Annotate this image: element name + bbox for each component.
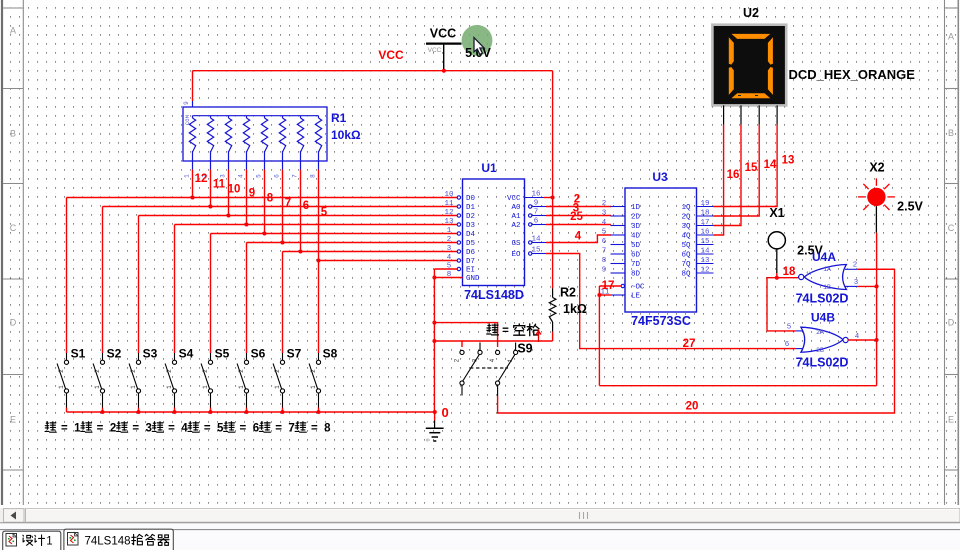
svg-text:2: 2	[58, 369, 65, 373]
svg-text:18: 18	[783, 266, 796, 278]
U2 pins leads	[724, 105, 778, 124]
U1 name 74LS148D	[464, 288, 524, 302]
label key = space	[487, 324, 539, 337]
svg-text:=: =	[311, 422, 318, 434]
switch S1	[57, 347, 86, 413]
svg-text:=: =	[168, 422, 175, 434]
wire net 17 OC LE latch enable	[599, 286, 876, 386]
gate U4A 74LS02 NOR mirrored	[799, 262, 859, 292]
svg-text:2: 2	[202, 369, 209, 373]
label X1 2.5V	[797, 244, 823, 258]
junction S9 net a	[432, 321, 436, 325]
svg-text:U3: U3	[652, 170, 668, 184]
svg-text:1B: 1B	[823, 284, 831, 291]
svg-text:1: 1	[166, 385, 173, 389]
svg-text:27: 27	[683, 338, 696, 350]
svg-text:X2: X2	[869, 161, 884, 175]
label net 27	[683, 338, 696, 350]
svg-text:1A: 1A	[823, 266, 831, 273]
wire net 3 A1 to 2D	[546, 215, 611, 217]
svg-text:EO: EO	[511, 251, 521, 259]
svg-text:E: E	[10, 415, 16, 425]
svg-text:19: 19	[700, 200, 709, 208]
svg-text:S7: S7	[287, 347, 302, 361]
junction LE	[597, 293, 601, 297]
wire net 4 GS to 4D	[546, 235, 611, 243]
svg-text:6: 6	[602, 238, 607, 246]
svg-text:74LS02D: 74LS02D	[796, 356, 849, 370]
svg-text:8: 8	[310, 174, 317, 178]
svg-text:A: A	[948, 32, 954, 42]
svg-text:7D: 7D	[631, 261, 641, 269]
green voltage indicator blob	[462, 25, 493, 56]
svg-text:6Q: 6Q	[681, 252, 691, 260]
svg-text:S6: S6	[251, 347, 266, 361]
svg-text:14: 14	[700, 248, 710, 256]
svg-text:=: =	[240, 422, 247, 434]
label 5.0V	[465, 46, 491, 60]
svg-text:12: 12	[700, 267, 709, 275]
ground tiny label	[425, 438, 432, 441]
switch S3	[129, 347, 158, 413]
svg-text:1: 1	[184, 174, 191, 178]
U1 title	[481, 161, 497, 175]
svg-text:12: 12	[444, 209, 453, 217]
svg-text:2: 2	[130, 369, 137, 373]
svg-text:15: 15	[745, 162, 758, 174]
svg-text:0: 0	[442, 405, 449, 420]
svg-text:4: 4	[447, 254, 452, 262]
svg-text:2B: 2B	[816, 347, 824, 354]
svg-text:4: 4	[238, 174, 245, 178]
svg-text:2: 2	[602, 200, 607, 208]
svg-text:2: 2	[310, 369, 317, 373]
sheet border left strip	[2, 0, 23, 505]
wire U4A input 3	[857, 285, 876, 287]
junction ground bus	[433, 410, 437, 414]
svg-text:S4: S4	[179, 347, 194, 361]
svg-text:1Q: 1Q	[681, 204, 691, 212]
svg-text:S5: S5	[215, 347, 230, 361]
svg-text:D: D	[10, 318, 17, 328]
label X1	[769, 206, 784, 220]
label S9	[517, 342, 532, 356]
svg-text:7: 7	[285, 198, 291, 210]
U3 OC and LE pins	[600, 284, 645, 301]
svg-text:13: 13	[782, 155, 795, 167]
gate U4B 74LS02 NOR	[785, 324, 860, 355]
svg-text:7: 7	[288, 422, 294, 434]
svg-text:5: 5	[787, 324, 792, 332]
svg-text:4: 4	[489, 358, 496, 362]
svg-text:5D: 5D	[631, 242, 641, 250]
svg-text:74LS148: 74LS148	[85, 536, 131, 548]
U4B title	[811, 311, 835, 325]
svg-text:2.5V: 2.5V	[897, 200, 923, 214]
svg-text:17: 17	[602, 280, 615, 292]
svg-text:3D: 3D	[631, 223, 641, 231]
svg-text:6: 6	[274, 174, 281, 178]
svg-text:10: 10	[444, 191, 454, 199]
svg-text:GS: GS	[511, 240, 521, 248]
svg-text:DCD_HEX_ORANGE: DCD_HEX_ORANGE	[789, 67, 916, 82]
svg-text:16: 16	[727, 169, 740, 181]
wire U4B output to latch column	[848, 339, 876, 341]
junction U1 VCC	[551, 196, 555, 200]
switch S2	[93, 347, 122, 413]
wire net 25 A2 to 3D	[546, 224, 611, 226]
svg-text:X1: X1	[769, 206, 784, 220]
svg-text:3: 3	[602, 210, 607, 218]
svg-text:~OC: ~OC	[631, 284, 645, 292]
svg-text:3: 3	[447, 245, 452, 253]
svg-text:12: 12	[195, 173, 208, 185]
svg-text:16: 16	[700, 229, 710, 237]
U3 left pins 1D-8D	[602, 200, 641, 279]
svg-text:74F573SC: 74F573SC	[631, 314, 691, 328]
svg-text:3Q: 3Q	[681, 223, 691, 231]
wire X2 lead	[875, 206, 877, 386]
svg-text:6: 6	[253, 422, 259, 434]
svg-text:4: 4	[575, 231, 582, 243]
svg-text:1kΩ: 1kΩ	[563, 302, 587, 316]
label net 18	[783, 266, 796, 278]
svg-text:5: 5	[217, 422, 224, 434]
svg-text:1: 1	[94, 385, 101, 389]
net number labels 12 11 10 9 8 7 6 5	[195, 173, 328, 219]
svg-text:3: 3	[146, 422, 152, 434]
svg-text:2D: 2D	[631, 214, 641, 222]
svg-text:U4A: U4A	[812, 250, 836, 264]
svg-text:EI: EI	[466, 267, 475, 275]
junction U4A in3	[875, 284, 879, 288]
svg-text:7: 7	[602, 248, 607, 256]
svg-text:S8: S8	[323, 347, 338, 361]
svg-text:2: 2	[166, 369, 173, 373]
svg-text:U2: U2	[743, 6, 759, 20]
junction GND row	[432, 276, 436, 280]
svg-text:S3: S3	[143, 347, 158, 361]
U3 title	[652, 170, 668, 184]
svg-text:C: C	[948, 223, 955, 233]
label R2 value 1k	[563, 302, 587, 316]
svg-text:13: 13	[700, 257, 710, 265]
svg-text:1: 1	[447, 227, 452, 235]
svg-text:VCC: VCC	[430, 27, 456, 41]
svg-text:1: 1	[46, 536, 52, 548]
svg-text:R1: R1	[331, 111, 347, 125]
U4B name 74LS02D	[796, 356, 849, 370]
U3 right pins 1Q-8Q	[681, 200, 713, 279]
svg-text:U1: U1	[481, 161, 497, 175]
svg-text:18: 18	[700, 210, 709, 218]
svg-text:7Q: 7Q	[681, 261, 691, 269]
svg-text:COM: COM	[184, 115, 191, 125]
label X2	[869, 161, 884, 175]
switch S4	[165, 347, 194, 413]
svg-text:=: =	[204, 422, 211, 434]
wire net 20 from S9	[498, 269, 895, 413]
svg-text:1: 1	[130, 385, 137, 389]
svg-text:8D: 8D	[631, 271, 641, 279]
junction X1 tap	[775, 276, 779, 280]
horizontal scrollbar	[0, 508, 960, 523]
svg-text:LE: LE	[631, 293, 641, 301]
svg-text:6: 6	[785, 341, 790, 349]
svg-text:D4: D4	[466, 231, 476, 239]
svg-text:8: 8	[602, 257, 607, 265]
label X2 2.5V	[897, 200, 923, 214]
svg-text:GND: GND	[466, 275, 480, 283]
svg-text:1: 1	[507, 358, 514, 362]
svg-text:D0: D0	[466, 195, 476, 203]
wires U2 to U3 outputs	[714, 125, 778, 235]
svg-text:B: B	[10, 129, 16, 139]
svg-text:11: 11	[444, 200, 454, 208]
resistor R2	[549, 289, 556, 342]
wire U4A input 2	[857, 268, 894, 270]
resistor network R1 box	[183, 107, 327, 170]
svg-text:=: =	[61, 422, 68, 434]
svg-text:2: 2	[853, 262, 858, 270]
tab design1	[3, 531, 61, 550]
R1 bottom pin numbers	[184, 174, 317, 178]
labels nets 2 3 25 4	[570, 194, 583, 243]
svg-text:1: 1	[202, 385, 209, 389]
svg-text:1D: 1D	[631, 204, 641, 212]
junction S9 net b	[432, 339, 436, 343]
svg-text:=: =	[275, 422, 282, 434]
display U2 seven segment	[712, 25, 786, 106]
svg-text:S9: S9	[517, 342, 532, 356]
svg-text:=: =	[132, 422, 139, 434]
svg-text:A: A	[10, 26, 16, 36]
R1 pin 9 lead	[183, 101, 193, 107]
svg-text:2: 2	[110, 422, 116, 434]
svg-text:D1: D1	[466, 204, 476, 212]
svg-text:VCC: VCC	[378, 48, 404, 62]
switch S6	[237, 347, 266, 413]
junction U4B out	[875, 338, 879, 342]
labels nets 16 15 14 13	[727, 155, 795, 182]
svg-text:D2: D2	[466, 213, 475, 221]
svg-text:5: 5	[602, 229, 607, 237]
svg-text:25: 25	[570, 211, 583, 223]
U3 name 74F573SC	[631, 314, 691, 328]
svg-text:4Q: 4Q	[681, 233, 691, 241]
label R1 value 10k	[331, 128, 361, 142]
svg-text:4: 4	[181, 422, 188, 434]
svg-text:3: 3	[220, 174, 227, 178]
svg-text:D: D	[948, 318, 955, 328]
svg-text:2A: 2A	[816, 329, 824, 336]
svg-text:1: 1	[58, 385, 65, 389]
switch S5	[201, 347, 230, 413]
svg-text:3: 3	[472, 358, 479, 362]
svg-text:A1: A1	[511, 213, 521, 221]
svg-text:5Q: 5Q	[681, 242, 691, 250]
svg-text:8: 8	[324, 422, 331, 434]
wire S9 upper nets	[434, 323, 552, 347]
wire VCC rail	[193, 71, 553, 101]
U2 title	[743, 6, 759, 20]
svg-text:14: 14	[764, 159, 777, 171]
svg-text:R2: R2	[560, 286, 576, 300]
svg-text:74LS02D: 74LS02D	[796, 292, 849, 306]
labels key = N under switches	[45, 422, 331, 435]
svg-text:D6: D6	[466, 249, 476, 257]
svg-text:A0: A0	[511, 204, 521, 212]
svg-text:7: 7	[292, 174, 299, 178]
tab 74LS148 active	[64, 529, 173, 550]
svg-text:1: 1	[238, 385, 245, 389]
ground symbol	[426, 412, 444, 441]
svg-text:4: 4	[602, 219, 607, 227]
wire ground bus under switches	[67, 411, 435, 413]
svg-text:=: =	[97, 422, 104, 434]
wire net 2 A0 to 1D	[546, 206, 611, 208]
svg-text:1Y: 1Y	[806, 270, 813, 277]
svg-text:20: 20	[686, 401, 699, 413]
wire net 18 U4A output	[767, 273, 799, 331]
wire VCC to U1 pin16 and R2	[544, 71, 553, 289]
svg-text:A2: A2	[511, 222, 520, 230]
switch S7	[273, 347, 302, 413]
svg-text:4D: 4D	[631, 233, 641, 241]
svg-text:C: C	[10, 223, 17, 233]
U1 right pins	[507, 191, 546, 260]
svg-text:17: 17	[700, 219, 709, 227]
svg-text:2Q: 2Q	[681, 214, 691, 222]
svg-text:E: E	[948, 415, 954, 425]
svg-text:5: 5	[256, 174, 263, 178]
svg-text:9: 9	[183, 101, 190, 105]
label net VCC red	[378, 48, 404, 62]
svg-text:D7: D7	[466, 258, 475, 266]
svg-text:9: 9	[602, 267, 607, 275]
R1 COM label	[184, 115, 191, 125]
switch S8	[309, 347, 338, 413]
label DCD_HEX_ORANGE	[789, 67, 916, 82]
wire R1 pulldown columns to input nets	[193, 170, 319, 261]
svg-text:U4B: U4B	[811, 311, 835, 325]
wire net 27 EO to U4B	[546, 254, 795, 349]
svg-text:11: 11	[213, 179, 226, 191]
svg-text:D3: D3	[466, 222, 476, 230]
junctions resistor columns	[191, 196, 321, 263]
red caret mark	[536, 331, 541, 342]
svg-text:S2: S2	[107, 347, 122, 361]
svg-text:6D: 6D	[631, 252, 641, 260]
design tab bar	[0, 523, 960, 550]
svg-text:VCC: VCC	[507, 195, 521, 203]
svg-text:1: 1	[74, 422, 81, 434]
svg-text:1: 1	[274, 385, 281, 389]
mouse cursor	[474, 38, 484, 55]
svg-text:1: 1	[310, 385, 317, 389]
svg-text:2: 2	[447, 236, 452, 244]
svg-text:8: 8	[267, 193, 274, 205]
svg-text:=: =	[502, 325, 509, 337]
svg-text:13: 13	[444, 218, 454, 226]
junction VCC tap	[442, 69, 446, 73]
svg-text:0: 0	[425, 438, 432, 441]
U1 left pins bubbles and labels	[444, 191, 480, 283]
svg-text:2: 2	[238, 369, 245, 373]
IC U1 74LS148D outline	[463, 179, 525, 286]
svg-text:2: 2	[274, 369, 281, 373]
wire U1 EI GND to ground rail	[434, 269, 462, 412]
label net 0	[442, 405, 449, 420]
label R2	[560, 286, 576, 300]
svg-text:8Q: 8Q	[681, 271, 691, 279]
wire input nets rows to U1	[67, 198, 459, 354]
power VCC symbol	[426, 27, 462, 71]
label net 20	[686, 401, 699, 413]
label R1	[331, 111, 347, 125]
probe X1 lamp	[768, 232, 785, 273]
svg-text:B: B	[948, 128, 954, 138]
switch S9 DPST	[454, 343, 518, 397]
svg-text:15: 15	[700, 238, 710, 246]
svg-text:2: 2	[94, 369, 101, 373]
U4A name 74LS02D	[796, 292, 849, 306]
svg-text:2: 2	[454, 358, 461, 362]
label net 17	[602, 280, 615, 292]
svg-text:74LS148D: 74LS148D	[464, 288, 524, 302]
IC U3 74F573SC outline	[625, 188, 697, 312]
junctions switch bus	[101, 410, 321, 414]
svg-text:VCC: VCC	[428, 47, 442, 54]
probe X2 lamp lit	[858, 178, 895, 210]
svg-text:5: 5	[321, 207, 328, 219]
svg-text:S1: S1	[71, 347, 86, 361]
U4A title	[812, 250, 836, 264]
svg-text:10: 10	[228, 184, 241, 196]
svg-text:10kΩ: 10kΩ	[331, 128, 361, 142]
svg-text:D5: D5	[466, 240, 476, 248]
sheet border right strip	[945, 0, 959, 505]
